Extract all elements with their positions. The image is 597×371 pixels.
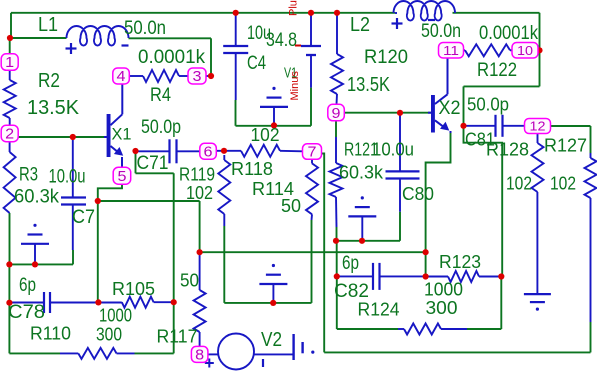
svg-text:34.8: 34.8 [266, 30, 297, 51]
svg-text:L1: L1 [38, 14, 58, 36]
svg-text:12: 12 [530, 119, 546, 134]
svg-text:R117: R117 [157, 327, 198, 347]
svg-text:L2: L2 [350, 14, 370, 36]
svg-text:13.5K: 13.5K [27, 97, 80, 119]
svg-text:10.0u: 10.0u [49, 167, 86, 188]
svg-text:0.0001k: 0.0001k [479, 23, 538, 44]
svg-text:R123: R123 [439, 252, 481, 272]
svg-text:50.0n: 50.0n [421, 21, 461, 42]
svg-text:10: 10 [517, 43, 533, 58]
svg-text:10.0u: 10.0u [372, 140, 414, 160]
svg-text:4: 4 [117, 69, 126, 85]
svg-text:0.0001k: 0.0001k [138, 47, 205, 68]
svg-text:R3: R3 [19, 165, 38, 186]
svg-text:R4: R4 [150, 85, 171, 106]
svg-text:R105: R105 [112, 279, 155, 299]
svg-text:2: 2 [5, 127, 14, 143]
svg-text:C78: C78 [8, 302, 45, 323]
svg-text:300: 300 [96, 325, 122, 345]
svg-text:R127: R127 [544, 136, 587, 156]
svg-text:X1: X1 [112, 125, 132, 144]
svg-text:60.3k: 60.3k [339, 162, 384, 182]
svg-text:9: 9 [332, 106, 341, 122]
svg-text:C7: C7 [72, 207, 95, 228]
svg-text:1000: 1000 [99, 306, 132, 326]
svg-text:R128: R128 [486, 140, 529, 160]
svg-text:50.0p: 50.0p [467, 95, 509, 115]
svg-text:50: 50 [180, 271, 199, 291]
svg-text:C71: C71 [137, 153, 169, 174]
svg-text:3: 3 [193, 69, 202, 85]
svg-text:Plus: Plus [288, 0, 300, 16]
svg-text:50.0n: 50.0n [124, 18, 166, 39]
svg-text:1000: 1000 [424, 280, 463, 300]
svg-text:102: 102 [251, 125, 280, 145]
svg-text:50: 50 [281, 196, 301, 216]
svg-text:6p: 6p [19, 275, 36, 296]
svg-text:X2: X2 [439, 98, 461, 119]
svg-text:102: 102 [550, 174, 576, 194]
svg-text:R2: R2 [38, 70, 60, 92]
svg-text:R124: R124 [358, 300, 400, 320]
svg-text:R119: R119 [179, 164, 215, 184]
svg-text:R120: R120 [364, 47, 408, 68]
svg-text:1: 1 [5, 55, 14, 71]
svg-text:R118: R118 [231, 159, 273, 179]
svg-text:7: 7 [308, 145, 317, 161]
svg-text:R122: R122 [477, 60, 517, 81]
svg-text:102: 102 [186, 183, 213, 203]
svg-text:6p: 6p [342, 253, 359, 274]
svg-text:8: 8 [195, 348, 204, 364]
svg-text:102: 102 [506, 174, 532, 194]
svg-text:6: 6 [204, 145, 213, 161]
svg-text:60.3k: 60.3k [14, 187, 59, 208]
svg-text:C4: C4 [247, 53, 266, 74]
svg-text:Minus: Minus [289, 71, 301, 101]
svg-text:5: 5 [118, 169, 127, 185]
svg-text:R110: R110 [30, 324, 71, 344]
svg-text:13.5K: 13.5K [347, 74, 391, 96]
svg-text:C80: C80 [402, 184, 434, 204]
svg-text:V2: V2 [261, 329, 282, 351]
svg-text:11: 11 [443, 43, 459, 58]
svg-text:50.0p: 50.0p [141, 117, 181, 138]
svg-text:300: 300 [426, 298, 458, 318]
